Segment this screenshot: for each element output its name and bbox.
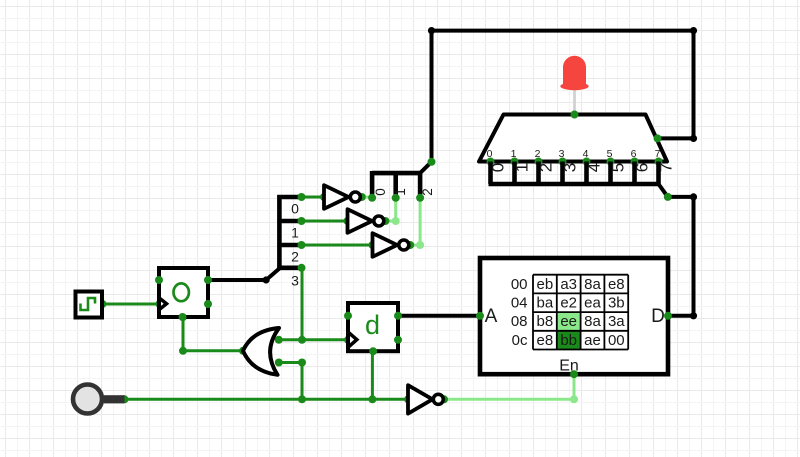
svg-text:3: 3 <box>561 163 580 172</box>
wire button to En inverter <box>121 395 413 403</box>
svg-text:1: 1 <box>513 163 532 172</box>
button input BTN1 <box>73 385 125 414</box>
svg-text:a3: a3 <box>560 276 577 293</box>
svg-text:3: 3 <box>291 273 299 289</box>
svg-text:2: 2 <box>420 188 435 196</box>
wire inverter1 out (high) <box>358 193 372 201</box>
svg-text:eb: eb <box>537 276 554 293</box>
wire splitter bit2 to inverter3 <box>302 241 377 249</box>
or gate G4 (rotated 180) <box>243 328 279 375</box>
clock input CLK1 <box>76 292 103 318</box>
svg-text:2: 2 <box>537 163 556 172</box>
svg-text:4: 4 <box>585 163 604 172</box>
svg-text:8a: 8a <box>584 313 601 330</box>
svg-text:ea: ea <box>584 295 601 312</box>
left splitter SP1 <box>277 193 305 289</box>
svg-text:2: 2 <box>291 248 299 264</box>
svg-text:6: 6 <box>633 163 652 172</box>
counter U1 <box>155 268 212 321</box>
wire En inverter out to ROM En (high) <box>440 375 578 404</box>
wire splitter bit1 to inverter2 <box>302 217 352 225</box>
svg-text:A: A <box>485 306 498 327</box>
svg-text:00: 00 <box>511 276 528 293</box>
svg-text:6: 6 <box>631 148 637 160</box>
svg-text:1: 1 <box>291 225 299 241</box>
wire clock to counter <box>99 300 164 308</box>
wire or-in2 stub <box>275 359 306 367</box>
svg-text:0: 0 <box>373 188 388 196</box>
wire or-in1 to d clock <box>275 336 352 344</box>
wire d Q to ROM A bus <box>398 314 480 318</box>
inverter G2 <box>348 209 384 233</box>
svg-text:ba: ba <box>537 295 554 312</box>
svg-text:ee: ee <box>560 313 577 330</box>
svg-text:0: 0 <box>489 163 508 172</box>
svg-text:7: 7 <box>655 148 661 160</box>
svg-text:7: 7 <box>657 163 676 172</box>
inverter G3 <box>373 233 409 257</box>
svg-text:0: 0 <box>291 201 299 217</box>
svg-text:00: 00 <box>608 332 625 349</box>
wire splitter bus to D: horizontal <box>668 193 697 200</box>
D flip-flop U2 <box>344 303 402 355</box>
ROM U3 <box>476 258 672 378</box>
LED D1 <box>560 56 588 115</box>
top splitter SP2 (3 bit merge) <box>368 158 435 202</box>
svg-text:e2: e2 <box>560 295 577 312</box>
svg-text:3b: 3b <box>608 295 625 312</box>
wire sel bus left vertical <box>430 31 434 162</box>
wire mux sel horizontal <box>658 136 694 140</box>
svg-text:d: d <box>365 310 380 340</box>
svg-text:1: 1 <box>393 188 408 196</box>
wire or output to counter bottom <box>179 313 247 355</box>
inverter G5 (En) <box>408 385 443 413</box>
svg-text:8a: 8a <box>584 276 601 293</box>
wire D pin horizontal <box>668 314 694 318</box>
svg-text:ae: ae <box>584 332 601 349</box>
svg-text:0: 0 <box>487 148 493 160</box>
wire inverter3 out (high) <box>406 198 424 249</box>
svg-text:0c: 0c <box>512 332 528 349</box>
svg-text:e8: e8 <box>537 332 554 349</box>
svg-text:08: 08 <box>511 313 528 330</box>
inverter G1 <box>324 185 360 209</box>
wire splitter bit3 vertical <box>301 268 304 340</box>
ROM data table <box>511 275 628 350</box>
svg-text:04: 04 <box>511 295 528 312</box>
mux splitter SP3 (8 bit) <box>489 162 676 201</box>
svg-text:b8: b8 <box>537 313 554 330</box>
wire counter out bus <box>208 269 279 284</box>
svg-text:2: 2 <box>535 148 541 160</box>
wire sel bus right vertical <box>690 31 697 142</box>
svg-text:bb: bb <box>560 332 577 349</box>
svg-text:4: 4 <box>583 148 589 160</box>
wire or-in2 vertical to button wire <box>301 363 304 400</box>
svg-text:1: 1 <box>511 148 517 160</box>
wire sel bus top horizontal <box>428 27 697 34</box>
wire splitter bit0 to inverter1 <box>302 193 329 201</box>
svg-text:3a: 3a <box>608 313 625 330</box>
svg-text:5: 5 <box>609 163 628 172</box>
multiplexer MUX1 <box>479 111 667 166</box>
svg-text:e8: e8 <box>608 276 625 293</box>
svg-text:5: 5 <box>607 148 613 160</box>
svg-text:D: D <box>651 306 665 327</box>
wire d bottom to button wire <box>368 351 376 403</box>
wire inverter2 out (high) <box>381 198 399 225</box>
wire splitter bus to D: vertical <box>690 197 697 320</box>
svg-text:3: 3 <box>559 148 565 160</box>
